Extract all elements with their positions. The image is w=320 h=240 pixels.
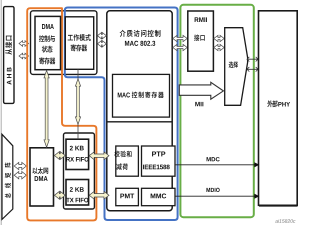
green highlight outline (MII/RMII select group) — [180, 5, 253, 217]
MAC control registers box — [113, 74, 170, 117]
wire: MAC to RMII interface arrow 1 — [173, 35, 187, 41]
DMA control and status registers box — [35, 16, 61, 69]
2KB RX FIFO box — [66, 139, 89, 169]
checksum offload box — [114, 146, 138, 176]
2KB TX FIFO box — [66, 180, 89, 206]
MDIO label — [206, 188, 210, 192]
wire: vertical arrow DMA regs to ethernet DMA — [44, 70, 49, 147]
wire: bus matrix to ethernet DMA arrow 2 — [14, 172, 26, 179]
AHB slave interface box — [4, 7, 14, 104]
black group box: MAC side — [107, 11, 172, 211]
MMC box — [142, 188, 176, 205]
wire: RMII to selector arrow 2 — [214, 44, 224, 50]
wire: RMII to selector arrow 1 — [214, 35, 224, 41]
left page border line — [0, 0, 2, 225]
wire: working mode regs to MAC arrow 1 — [97, 33, 106, 39]
ethernet DMA box — [30, 148, 54, 206]
wire: selector to external PHY arrow 2 — [247, 67, 258, 72]
wire: AHB to DMA registers arrow 2 — [19, 53, 29, 59]
MDC label — [207, 157, 211, 161]
wire: AHB to DMA registers arrow 1 — [19, 41, 29, 47]
wire: RX FIFO to checksum offload arrow — [89, 152, 109, 160]
wire: MAC to RMII interface arrow 2 — [173, 44, 187, 50]
PTP IEEE1588 box — [142, 146, 176, 176]
divider line under MAC 802.3 area — [107, 121, 172, 123]
MAC 802.3 media access control label — [120, 30, 161, 46]
MII block arrow — [179, 82, 223, 99]
RMII interface box — [188, 11, 214, 71]
working mode registers box — [65, 17, 93, 70]
wire: ethernet DMA to TX FIFO arrow — [54, 191, 65, 199]
black group box: registers (DMA + working mode) — [31, 11, 97, 75]
external PHY box — [259, 11, 298, 206]
wire: MDIO line with arrowhead — [175, 195, 257, 197]
wire: TX FIFO to PMT arrow — [89, 191, 109, 199]
black group box: FIFOs — [64, 133, 95, 209]
selector mux shape — [225, 28, 248, 106]
orange highlight outline (DMA group) — [27, 8, 96, 220]
watermark — [275, 219, 295, 223]
wire: selector to external PHY arrow 1 — [247, 57, 258, 62]
wire: ethernet DMA to RX FIFO arrow — [54, 152, 65, 160]
blue highlight outline (MAC registers group) — [65, 8, 178, 221]
wire: bus matrix to ethernet DMA arrow 1 — [14, 162, 26, 169]
bus matrix block — [2, 134, 13, 219]
wire: MDC line with arrowhead — [175, 164, 257, 166]
wire: working mode regs to MAC arrow 2 — [97, 41, 106, 47]
wire: vertical arrow working mode regs to RX FIFO — [77, 69, 79, 78]
MII label — [195, 102, 199, 106]
PMT box — [116, 188, 139, 205]
